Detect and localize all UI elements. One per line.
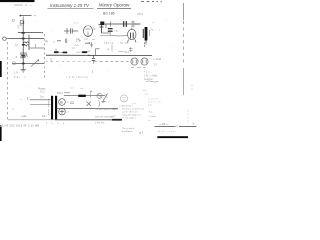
speaker cross xyxy=(87,102,92,107)
wire: horizontal y32 xyxy=(18,32,41,34)
capacitor C7 small xyxy=(90,42,92,48)
resistor R4 (thick) xyxy=(54,51,59,53)
registration dashes top-right xyxy=(141,1,162,3)
svg-text:w/k t: w/k t xyxy=(143,89,148,92)
wire dashed below T1 xyxy=(144,43,146,48)
svg-text:Austrtop: Austrtop xyxy=(144,78,154,81)
svg-text:new me need: new me need xyxy=(95,116,110,119)
capacitor C5 plates xyxy=(65,39,66,44)
wire: horizontal y63.5 xyxy=(12,63,44,65)
wire: main vertical bus of tuner xyxy=(22,21,24,70)
right margin rule xyxy=(183,3,185,20)
svg-text:e the me ..: e the me .. xyxy=(95,122,107,125)
svg-text:2a t: 2a t xyxy=(40,96,44,99)
tube V4 (twin) xyxy=(131,58,138,65)
shield box dashed left border xyxy=(6,42,8,122)
svg-text:Instrumenty 1-25 TV: Instrumenty 1-25 TV xyxy=(50,3,90,8)
svg-text:BG 186: BG 186 xyxy=(103,11,115,15)
border mask bar left edge xyxy=(0,61,2,77)
svg-text:me and weed me: me and weed me xyxy=(95,108,114,111)
svg-text:a st 2 t t the t of t: a st 2 t t the t of t xyxy=(122,111,138,114)
dashes under top-middle xyxy=(76,38,95,40)
tube V2 envelope xyxy=(128,28,137,43)
svg-text:'7: '7 xyxy=(192,122,195,126)
marks left of rectifier xyxy=(70,102,74,104)
transformer primary winding xyxy=(48,99,51,116)
variable capacitor arrow xyxy=(31,60,39,67)
svg-text:D: D xyxy=(12,19,15,23)
resistor R3 (dash) xyxy=(57,40,61,42)
switch S1 diagonal xyxy=(102,94,108,102)
svg-text:t. 4; At. t her t m j: t. 4; At. t her t m j xyxy=(66,76,89,79)
svg-text:t w this ngal t e: t w this ngal t e xyxy=(122,117,137,120)
connector post xyxy=(100,25,104,33)
wire between R4 R5 xyxy=(59,51,63,53)
transformer T2 core bars xyxy=(51,96,53,120)
tube V5 (twin) xyxy=(141,58,148,65)
svg-text:the Most d t: the Most d t xyxy=(122,130,133,133)
scan speckle xyxy=(12,12,193,97)
svg-text:/ 2F t: / 2F t xyxy=(144,93,149,96)
svg-text:2,4 / ...t...: 2,4 / ...t... xyxy=(14,75,29,79)
wire: horizontal y38.6 xyxy=(9,38,45,40)
wire stub x112 xyxy=(111,45,113,52)
svg-text:+ :2'47: + :2'47 xyxy=(153,57,162,61)
svg-text:g st: g st xyxy=(148,104,152,107)
trimmer circle xyxy=(12,62,15,65)
svg-text:—24—: —24— xyxy=(158,122,168,126)
tube V1 envelope xyxy=(84,25,93,37)
wire: main horizontal bus y55.3 xyxy=(46,54,152,56)
border mask bar top-left xyxy=(0,0,35,2)
svg-text:3.: 3. xyxy=(16,55,19,59)
junction node xyxy=(88,55,89,56)
ground tuner xyxy=(21,70,27,73)
stray dots right field xyxy=(153,22,154,23)
border mask bar bottom-left edge xyxy=(0,127,2,141)
svg-text:1 V: 1 V xyxy=(14,71,18,75)
wire stub x90.5 xyxy=(90,93,92,99)
svg-text:1 NF 250 1615 4F 2-11 MB: 1 NF 250 1615 4F 2-11 MB xyxy=(2,125,39,128)
switch S1 pole xyxy=(102,101,106,102)
input jack J1 xyxy=(2,37,9,40)
capacitor C2 (top middle) xyxy=(64,28,78,34)
wire: horizontal y48 xyxy=(29,47,44,49)
choke (solid) xyxy=(78,95,86,97)
tick below C6 xyxy=(92,71,94,74)
wire: stub corner y33 xyxy=(102,32,111,34)
wire arrow xyxy=(119,51,124,53)
svg-text:like t: like t xyxy=(113,108,118,111)
rectifier (circle +) xyxy=(59,108,66,115)
wire to R6 xyxy=(76,51,82,53)
wire: into transformer xyxy=(30,99,51,101)
svg-text:+|: +| xyxy=(107,47,110,51)
margin tick x192 xyxy=(191,85,193,91)
inductor L2 with core xyxy=(20,53,28,58)
corner wire at x95.5 xyxy=(96,49,100,56)
svg-text:Za..: Za.. xyxy=(42,114,47,118)
socket circle xyxy=(97,93,102,98)
wire with junction xyxy=(85,42,90,44)
resistor R6 (thick) xyxy=(82,51,87,53)
svg-text:that she rt a f d W t and: that she rt a f d W t and xyxy=(122,108,144,111)
svg-text:≈ t: ≈ t xyxy=(67,111,70,114)
inductor L1 winding xyxy=(24,35,30,51)
svg-text:1,5 2 n 4: 1,5 2 n 4 xyxy=(104,42,114,45)
shield box dashed right border xyxy=(44,34,46,80)
svg-text:Wzory Oporow: Wzory Oporow xyxy=(99,3,130,8)
svg-text:c 2 gdm: c 2 gdm xyxy=(148,116,156,118)
svg-text:25,9: 25,9 xyxy=(136,12,143,16)
svg-text:Beesld on t: Beesld on t xyxy=(122,105,133,108)
registration marks under top-left bar xyxy=(14,4,32,6)
capacitor C1 (input) xyxy=(20,17,24,26)
svg-text:The t y and d: The t y and d xyxy=(122,127,135,130)
wire: bus y108.6 xyxy=(57,108,118,110)
svg-text:g t of d t t t t: g t of d t t t t xyxy=(148,98,159,101)
svg-text:t of g and t llege f a t: t of g and t llege f a t xyxy=(122,114,141,117)
capacitor C4 vertical xyxy=(106,24,113,36)
resistor R2 marks xyxy=(131,21,135,28)
tube pin marks below V4 V5 xyxy=(131,67,146,69)
capacitor C8 marks xyxy=(129,47,133,52)
bottom right small col xyxy=(148,104,156,123)
svg-text:NL Ther: NL Ther xyxy=(120,42,129,45)
dot row under transformer xyxy=(46,123,64,124)
winding blobs on bus xyxy=(21,32,25,64)
svg-text:+ 1 ; t...: + 1 ; t... xyxy=(144,71,152,74)
svg-text:10.2: 10.2 xyxy=(40,91,45,94)
mark on bus xyxy=(110,22,112,27)
svg-text:t ..: t .. xyxy=(12,107,15,111)
border mask bar bottom-right xyxy=(157,136,188,138)
svg-text:s the t t t e of t: s the t t t e of t xyxy=(148,101,162,104)
wire: top-right bus y24 xyxy=(104,23,140,25)
wire: long rule y119.8 xyxy=(8,119,55,121)
faint marks above power row xyxy=(70,87,74,89)
title: Instrumenty 1-25 TV xyxy=(50,3,90,8)
resistor R1 marks xyxy=(18,26,20,28)
ticks near R4 xyxy=(55,49,57,52)
tube V6 (faint) xyxy=(120,95,127,102)
svg-text:17th: 17th xyxy=(76,39,82,43)
svg-text:me?: me? xyxy=(110,116,115,119)
svg-text:N. til t...t g h t .: N. til t...t g h t . xyxy=(158,130,178,133)
bracket mark xyxy=(99,101,100,108)
resistor R5 (thick) xyxy=(63,52,68,54)
capacitor C6 drop at x93.5 xyxy=(92,55,95,63)
junction node xyxy=(22,38,24,40)
heater dashed line y61 xyxy=(46,60,101,62)
svg-text:2x0,1: 2x0,1 xyxy=(57,92,64,95)
IF transformer T1 (solid black core) xyxy=(145,27,148,41)
terminal block (black square) xyxy=(100,22,104,26)
bottom middle text col 2 xyxy=(122,105,144,134)
wire: y95.6 row xyxy=(64,95,105,97)
wire: y35.5 lower bus of top-right block xyxy=(100,34,128,37)
svg-text:~: ~ xyxy=(20,98,22,102)
pilot lamp (circle) xyxy=(59,99,66,106)
capacitor C3 on bus xyxy=(124,21,127,27)
svg-text:a. n.: a. n. xyxy=(74,22,79,25)
svg-text:...pel...: ...pel... xyxy=(20,114,29,118)
wire xyxy=(53,41,55,43)
svg-text:m: m xyxy=(60,101,63,105)
coil L3 marks xyxy=(72,45,79,48)
svg-text:25 b: 25 b xyxy=(123,50,130,54)
wire: antenna top lead xyxy=(20,15,32,17)
wire: stub x35.5 xyxy=(35,44,37,48)
